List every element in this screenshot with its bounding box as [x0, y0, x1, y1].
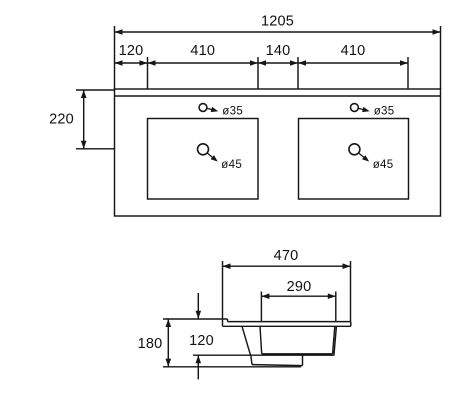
arrowheads top dims	[81, 29, 441, 149]
basin outer bottom / extension 120 bottom	[193, 354, 335, 356]
svg-text:1205: 1205	[261, 14, 294, 30]
slab right edge	[350, 322, 352, 327]
arrow 120 left	[115, 60, 123, 66]
basin 1 rectangle	[148, 119, 259, 200]
svg-text:ø35: ø35	[222, 106, 243, 118]
arrow shaft 120 bottom	[197, 355, 199, 379]
extension line right for 1205	[440, 26, 442, 89]
svg-text:ø45: ø45	[221, 159, 242, 171]
arrow 120 down (points to slab top)	[196, 311, 202, 319]
basin 2 rectangle	[299, 119, 409, 200]
leader arrow o35 basin2	[358, 107, 369, 112]
arrow 470 right	[343, 263, 351, 269]
dimension 290 line	[261, 295, 335, 297]
top view outer rectangle	[115, 89, 441, 216]
slab lip top line / extension for 180-120 top	[163, 318, 228, 320]
svg-text:410: 410	[341, 43, 366, 59]
svg-text:290: 290	[287, 279, 312, 295]
top view back edge line	[115, 95, 441, 97]
svg-text:410: 410	[190, 43, 215, 59]
leader arrow o35 basin1	[207, 107, 218, 112]
arrow 140 left	[258, 60, 266, 66]
dimension 220 line	[83, 90, 85, 149]
extension line x298	[297, 57, 299, 89]
leader arrow o45 basin1	[207, 153, 218, 162]
arrow shaft 120 top	[197, 293, 199, 319]
svg-text:140: 140	[266, 43, 291, 59]
svg-text:ø45: ø45	[373, 159, 394, 171]
extension line 220 bottom	[76, 148, 114, 150]
extension line x408	[407, 57, 409, 89]
arrow 180 up	[166, 319, 172, 327]
dimension 180 line	[167, 319, 169, 367]
arrow 410a left	[148, 60, 156, 66]
dimension 470 line	[223, 265, 351, 267]
sump bottom	[252, 365, 303, 366]
arrow 120 up (points to basin bottom)	[196, 355, 202, 363]
extension 470 right	[350, 261, 352, 322]
dimension row 120/410/140/410 line	[115, 62, 409, 64]
faucet hole basin1 o35	[199, 104, 207, 112]
arrow 1205 right	[433, 29, 441, 35]
extension 470 left / slab left edge	[222, 261, 224, 326]
leader arrow o45 basin2	[359, 153, 370, 162]
extension line x147.5	[147, 57, 149, 89]
arrow 290 left	[261, 293, 269, 299]
sump right edge	[302, 355, 304, 365]
arrow 120 right	[140, 60, 148, 66]
svg-text:120: 120	[189, 333, 214, 349]
drain hole basin2 o45	[349, 144, 360, 155]
extension 290 left / basin inner wall left	[260, 292, 262, 322]
svg-text:220: 220	[49, 111, 74, 127]
svg-text:180: 180	[138, 336, 163, 352]
svg-text:470: 470	[274, 248, 299, 264]
sump left edge	[251, 355, 252, 364]
arrow 140 right	[290, 60, 298, 66]
basin left outer wall	[242, 326, 251, 355]
extension 290 right	[335, 292, 337, 322]
arrow 290 right	[328, 293, 336, 299]
faucet hole basin2 o35	[351, 104, 359, 112]
extension line x258	[257, 57, 259, 89]
drain hole basin1 o45	[198, 144, 209, 155]
basin left inner wall	[260, 326, 262, 354]
arrow 410b left	[298, 60, 306, 66]
arrow 410b right	[400, 60, 408, 66]
extension 180 bottom	[163, 366, 301, 368]
extension line 220 top	[76, 89, 114, 91]
arrow 470 left	[223, 263, 231, 269]
arrow 220 up	[81, 90, 87, 98]
arrow 220 down	[81, 141, 87, 149]
basin right inner wall	[333, 326, 335, 354]
slab top surface	[228, 321, 351, 323]
arrow 1205 left	[115, 29, 123, 35]
svg-text:ø35: ø35	[374, 106, 395, 118]
dimension 1205 line	[115, 31, 441, 33]
slab bottom	[223, 325, 351, 327]
arrow 410a right	[250, 60, 258, 66]
basin inner bottom	[262, 353, 333, 355]
basin right outer wall	[334, 326, 336, 354]
slab lip step	[227, 319, 229, 322]
arrow 180 down	[166, 359, 172, 367]
extension line left for 1205	[114, 26, 116, 89]
svg-text:120: 120	[119, 43, 144, 59]
